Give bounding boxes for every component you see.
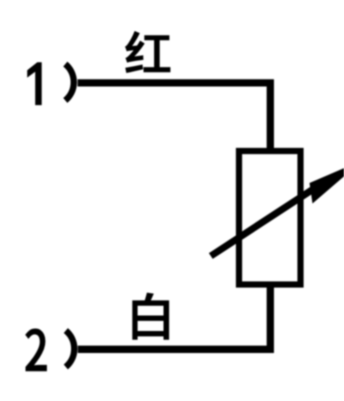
- label 白 (white wire): [132, 293, 169, 340]
- terminal pin number 2: [25, 329, 47, 372]
- terminal 1 socket arc: [65, 64, 73, 100]
- wire: potentiometer bottom to terminal 2: [78, 282, 270, 349]
- wire: terminal 1 to potentiometer top: [78, 83, 271, 152]
- potentiometer body: [239, 151, 301, 285]
- potentiometer arrow shaft: [211, 188, 315, 256]
- terminal pin number 1: [27, 62, 42, 105]
- potentiometer arrowhead: [310, 160, 344, 204]
- label 红 (red wire): [125, 31, 170, 73]
- terminal 2 socket arc: [66, 331, 74, 367]
